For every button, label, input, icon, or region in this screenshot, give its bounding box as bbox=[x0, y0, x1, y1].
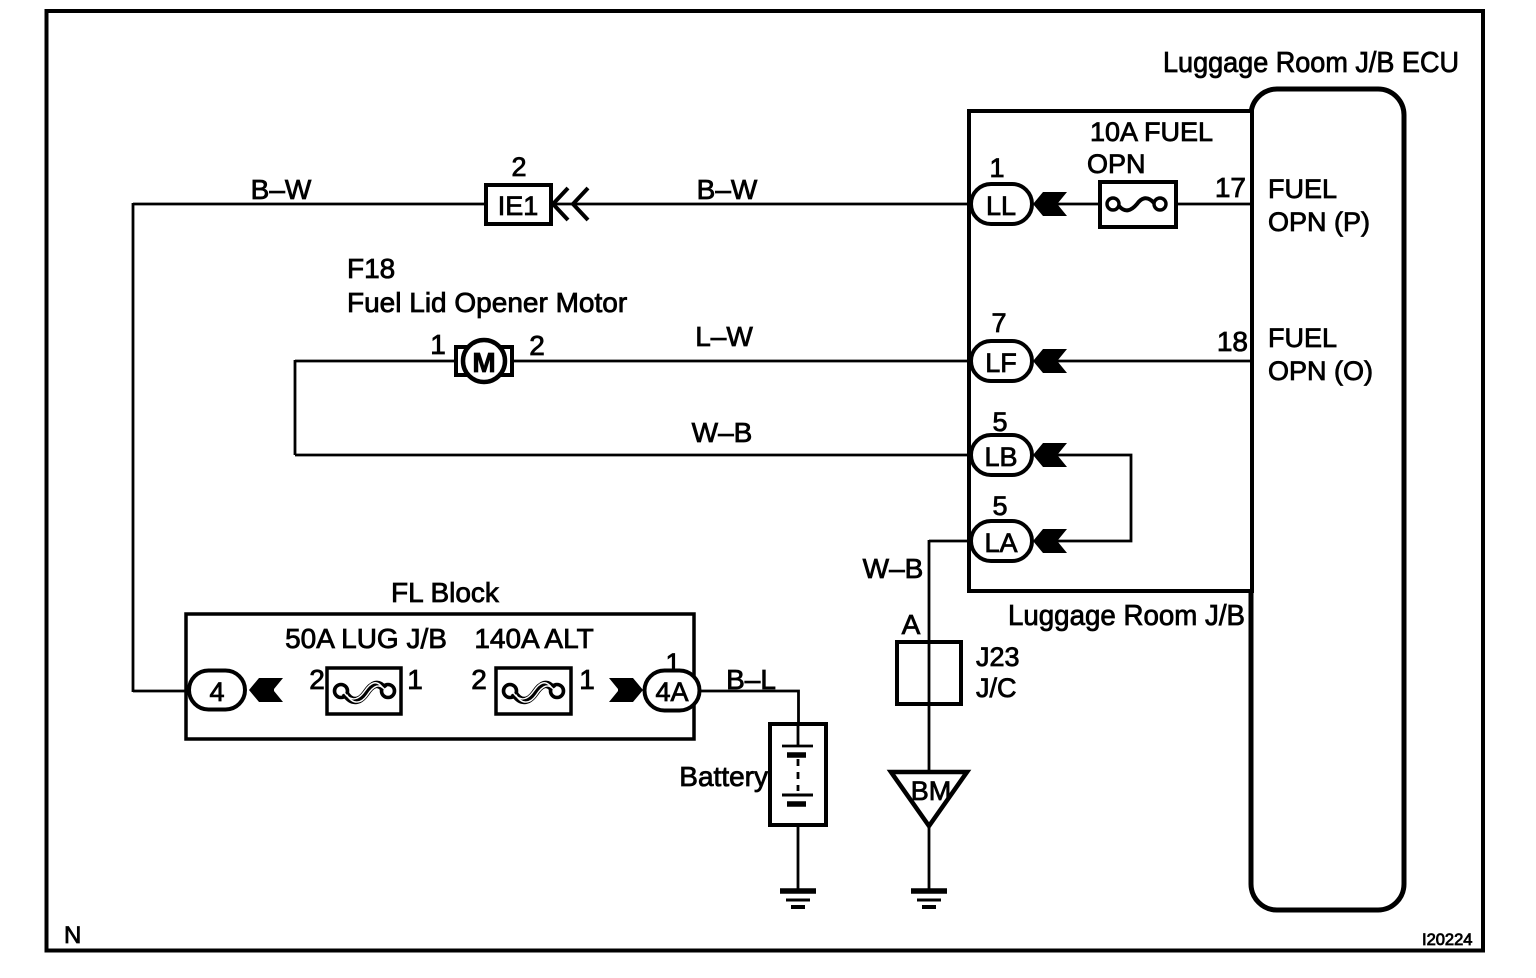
wire BM to ground bbox=[928, 824, 931, 891]
svg-text:1: 1 bbox=[430, 329, 446, 360]
connector LF bbox=[971, 341, 1032, 381]
svg-text:2: 2 bbox=[471, 664, 487, 695]
wire fuse 140A to arrow bbox=[571, 690, 612, 693]
wire B-W horizontal right bbox=[550, 203, 970, 206]
wire LA to branch bbox=[929, 540, 970, 543]
svg-text:4: 4 bbox=[209, 677, 224, 707]
battery BT1 bbox=[770, 724, 826, 825]
junction J23 J/C bbox=[897, 642, 961, 704]
arrow at 4 bbox=[249, 678, 283, 702]
svg-text:F18: F18 bbox=[347, 253, 395, 284]
svg-text:1: 1 bbox=[665, 648, 680, 678]
ground symbol at BM bbox=[911, 888, 947, 894]
wire W-B to LB bbox=[295, 454, 970, 457]
svg-text:1: 1 bbox=[579, 664, 595, 695]
wire B-W horizontal left bbox=[133, 203, 487, 206]
svg-text:OPN (O): OPN (O) bbox=[1268, 356, 1373, 386]
svg-text:B–L: B–L bbox=[726, 664, 776, 695]
wire B-L 4A to battery bbox=[700, 691, 799, 726]
connector LL bbox=[971, 184, 1032, 224]
svg-text:50A LUG J/B: 50A LUG J/B bbox=[285, 623, 447, 654]
wire fuse to ECU pin 17 bbox=[1176, 203, 1251, 206]
svg-text:10A FUEL: 10A FUEL bbox=[1090, 117, 1213, 147]
wire 4 arrow to fuse 50A bbox=[273, 690, 327, 693]
FL Block box bbox=[186, 614, 694, 739]
wire left vertical riser bbox=[132, 203, 135, 692]
svg-text:M: M bbox=[472, 347, 495, 378]
wire to FL Block connector 4 bbox=[133, 690, 190, 693]
wire motor pin1 left bbox=[295, 360, 456, 363]
svg-text:1: 1 bbox=[989, 153, 1004, 183]
svg-text:Luggage Room J/B ECU: Luggage Room J/B ECU bbox=[1163, 47, 1459, 79]
svg-text:Luggage Room J/B: Luggage Room J/B bbox=[1008, 600, 1245, 632]
wire W-B vertical branch to BM bbox=[928, 540, 931, 772]
connector LB bbox=[971, 435, 1032, 475]
motor M1 left bracket bbox=[456, 347, 467, 375]
svg-text:A: A bbox=[902, 609, 921, 640]
ECU U1 body bbox=[1251, 89, 1404, 910]
wire battery top plate bbox=[797, 726, 800, 745]
junction chevrons after IE1 bbox=[553, 188, 568, 220]
svg-text:B–W: B–W bbox=[697, 174, 758, 205]
svg-text:2: 2 bbox=[309, 664, 325, 695]
svg-text:FUEL: FUEL bbox=[1268, 323, 1337, 353]
svg-text:B–W: B–W bbox=[251, 174, 312, 205]
svg-text:BM: BM bbox=[911, 776, 952, 806]
svg-text:7: 7 bbox=[991, 308, 1006, 338]
svg-text:LA: LA bbox=[984, 528, 1017, 558]
svg-text:OPN: OPN bbox=[1087, 149, 1146, 179]
svg-text:5: 5 bbox=[992, 491, 1007, 521]
svg-text:OPN (P): OPN (P) bbox=[1268, 207, 1370, 237]
connector IE1 bbox=[486, 185, 551, 224]
svg-text:1: 1 bbox=[407, 664, 423, 695]
svg-text:N: N bbox=[64, 922, 81, 949]
arrow into 4A bbox=[609, 678, 643, 702]
box Luggage Room J/B bbox=[969, 111, 1252, 591]
svg-text:I20224: I20224 bbox=[1422, 931, 1472, 949]
svg-text:17: 17 bbox=[1215, 172, 1246, 203]
svg-text:4A: 4A bbox=[655, 677, 688, 707]
connector 4A bbox=[645, 671, 700, 711]
fuse 140A ALT bbox=[496, 668, 571, 714]
motor M1 body bbox=[463, 340, 505, 382]
svg-text:140A ALT: 140A ALT bbox=[474, 623, 593, 654]
wire motor loop vertical bbox=[294, 360, 297, 455]
svg-text:J23: J23 bbox=[976, 642, 1020, 672]
svg-text:2: 2 bbox=[529, 330, 545, 361]
wire L-W motor pin2 to LF bbox=[512, 360, 970, 363]
connector LA bbox=[971, 521, 1032, 561]
fuse 10A FUEL OPN bbox=[1100, 182, 1176, 227]
fuse 50A LUG J/B bbox=[327, 668, 401, 714]
wire LF arrow to ECU pin 18 bbox=[1057, 360, 1251, 363]
arrow at LF bbox=[1033, 349, 1067, 373]
svg-text:Battery: Battery bbox=[679, 761, 768, 792]
svg-text:LF: LF bbox=[985, 348, 1017, 378]
arrow at LA bbox=[1033, 529, 1067, 553]
arrow at LL bbox=[1033, 192, 1067, 216]
svg-text:LB: LB bbox=[984, 442, 1017, 472]
wire LB to LA loop bbox=[1057, 455, 1131, 541]
wire fuse 50A to fuse 140A bbox=[401, 690, 496, 693]
motor M1 right bracket bbox=[501, 347, 512, 375]
wire battery to ground bbox=[797, 804, 800, 891]
svg-text:IE1: IE1 bbox=[498, 191, 539, 221]
wire LL arrow to fuse bbox=[1057, 203, 1100, 206]
ground symbol at battery bbox=[780, 888, 816, 894]
svg-text:LL: LL bbox=[986, 191, 1016, 221]
svg-text:W–B: W–B bbox=[863, 553, 924, 584]
ground triangle BM bbox=[891, 772, 967, 826]
svg-text:W–B: W–B bbox=[692, 417, 753, 448]
svg-text:J/C: J/C bbox=[976, 673, 1017, 703]
connector 4 bbox=[189, 671, 245, 710]
svg-text:5: 5 bbox=[992, 407, 1007, 437]
arrow at LB bbox=[1033, 443, 1067, 467]
svg-text:FL Block: FL Block bbox=[391, 577, 500, 608]
svg-text:18: 18 bbox=[1217, 326, 1248, 357]
svg-text:Fuel Lid Opener Motor: Fuel Lid Opener Motor bbox=[347, 287, 627, 318]
svg-text:2: 2 bbox=[511, 152, 526, 182]
svg-text:L–W: L–W bbox=[695, 321, 753, 352]
svg-text:FUEL: FUEL bbox=[1268, 174, 1337, 204]
